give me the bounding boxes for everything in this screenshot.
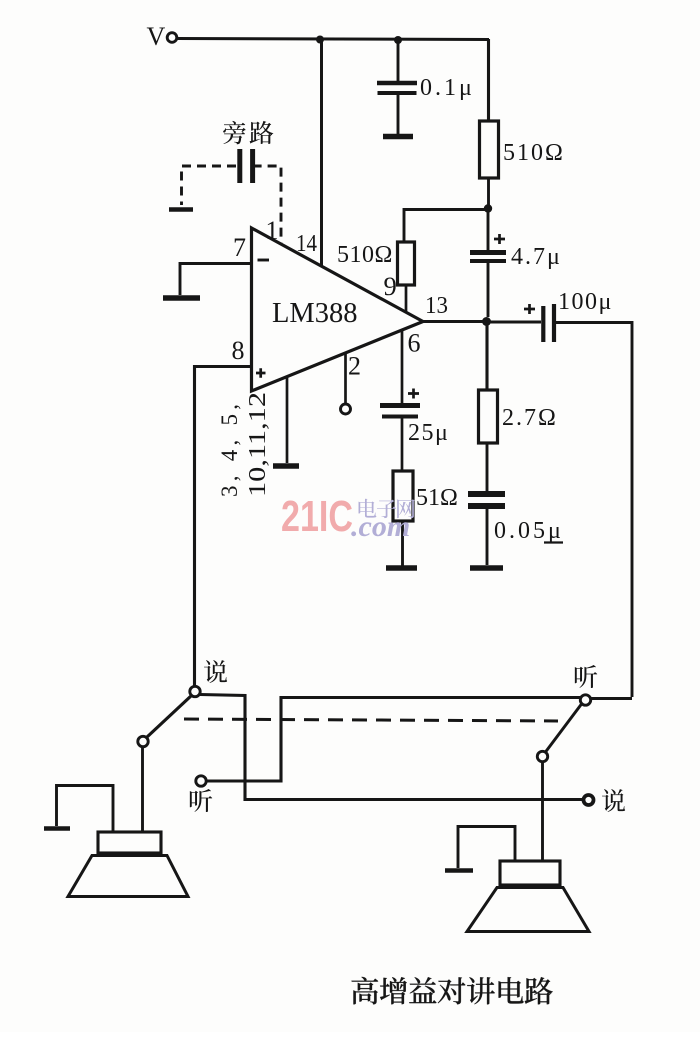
node right switch pole (ting) (580, 695, 590, 705)
switch arm left (147, 696, 192, 738)
node left arm contact (138, 736, 148, 746)
svg-text:25μ: 25μ (408, 420, 449, 446)
node V supply terminal (147, 22, 177, 51)
label bypass (pang lu) (223, 121, 273, 144)
node left ting terminal (196, 776, 206, 786)
plus sign 25u (408, 389, 419, 399)
junction 0.1u rail (394, 36, 402, 44)
wire pin 6 (401, 330, 404, 403)
speaker left cone (68, 856, 188, 897)
node right arm contact (537, 751, 547, 761)
ground pin 7 (163, 295, 200, 301)
wire R510 to junction (487, 178, 490, 206)
node junction below R510 (484, 204, 492, 212)
wire 2.7 ohm to 0.05u (486, 443, 489, 491)
speaker left box (98, 832, 161, 853)
capacitor 0.05u (468, 494, 505, 565)
wire output to 100u (486, 321, 541, 324)
label shuo right (602, 789, 625, 812)
wire right pole to right column (591, 697, 633, 700)
capacitor 0.1u (377, 40, 417, 134)
wire pins 3-12 to ground (286, 377, 289, 463)
label ting right (575, 665, 597, 688)
node right shuo terminal (584, 795, 594, 805)
svg-text:.com: .com (351, 510, 410, 543)
wire left speaker left terminal to ground (57, 786, 114, 833)
node left switch pole (shuo) (190, 686, 200, 696)
label ting left (190, 789, 212, 812)
wire dashed bypass right to pin 1 (253, 166, 281, 243)
svg-text:4.7μ: 4.7μ (511, 244, 562, 270)
wire 100u to right column (556, 323, 632, 698)
wire rail corner down to R 510 (487, 39, 490, 121)
speaker right cone (467, 888, 589, 932)
svg-text:V: V (147, 22, 166, 51)
wire pin 14 to supply rail (320, 39, 323, 266)
wire pin 13 output (423, 320, 485, 323)
resistor 510 ohm (pin 9) (398, 242, 415, 285)
wire output junction down (485, 322, 488, 390)
resistor 51 ohm (393, 471, 413, 521)
svg-text:510Ω: 510Ω (503, 140, 565, 166)
node pin 2 open terminal (341, 404, 351, 414)
capacitor 25u (380, 406, 420, 472)
wire junction left and down to pin9 resistor (404, 210, 488, 243)
wire left pole to right shuo terminal (200, 695, 583, 800)
ground 0.05u (470, 565, 503, 571)
svg-text:9: 9 (384, 271, 397, 301)
svg-text:13: 13 (425, 293, 448, 319)
capacitor bypass (240, 149, 253, 183)
svg-text:21IC: 21IC (281, 492, 353, 541)
wire right arm to speaker (541, 762, 544, 861)
svg-text:2: 2 (348, 352, 361, 381)
svg-text:10,11,12: 10,11,12 (244, 392, 271, 497)
speaker right box (500, 861, 560, 885)
capacitor 100u (543, 304, 554, 342)
svg-text:2.7Ω: 2.7Ω (502, 405, 558, 431)
wire mechanical link dashed (184, 719, 558, 721)
resistor 2.7 ohm (479, 390, 498, 443)
capacitor 4.7u (470, 212, 506, 317)
ground 51 ohm (386, 565, 417, 571)
wire pin 8 to left switch (195, 367, 252, 688)
pin label 3,4,5,10,11,12 (rotated) (217, 392, 271, 497)
svg-text:8: 8 (232, 336, 245, 365)
switch arm right (546, 704, 582, 752)
ground left speaker (44, 826, 70, 831)
svg-text:510Ω: 510Ω (337, 242, 393, 268)
plus sign 100u (524, 304, 535, 314)
svg-text:51Ω: 51Ω (416, 485, 458, 511)
ground right speaker (445, 868, 473, 873)
svg-text:14: 14 (296, 231, 317, 257)
inverting input minus sign (258, 259, 270, 262)
wire pin9 to op-amp (405, 285, 408, 313)
wire pin 2 (344, 353, 347, 404)
wire right speaker left terminal to ground (458, 827, 515, 869)
non-inverting input plus sign (256, 368, 266, 377)
ground pins 3-12 (273, 463, 299, 469)
resistor 510 ohm (top) (480, 121, 499, 178)
svg-text:100μ: 100μ (558, 289, 613, 315)
wire 51 ohm to ground (401, 521, 404, 566)
ground below 0.1u (383, 134, 413, 140)
wire dashed bypass left to ground (182, 166, 237, 205)
wire pin 7 (180, 264, 252, 296)
caption gao zeng yi dui jiang dian lu (352, 977, 553, 1005)
wire left arm to speaker (141, 747, 144, 832)
op-amp U1 LM388 triangle (252, 228, 424, 391)
junction pin-14 rail (316, 36, 324, 44)
svg-text:0.05μ: 0.05μ (494, 518, 564, 544)
svg-text:6: 6 (408, 329, 421, 358)
svg-text:0.1μ: 0.1μ (420, 75, 475, 101)
svg-text:7: 7 (233, 233, 246, 262)
watermark dianziwang (359, 499, 415, 518)
label shuo left (204, 660, 227, 683)
ground bypass (169, 207, 193, 212)
wire left ting terminal to right pole (207, 698, 582, 782)
node output junction (482, 317, 491, 326)
svg-text:LM388: LM388 (272, 298, 358, 329)
wire top supply rail (178, 39, 490, 40)
plus sign 4.7u (494, 234, 505, 244)
svg-text:1: 1 (266, 216, 279, 245)
